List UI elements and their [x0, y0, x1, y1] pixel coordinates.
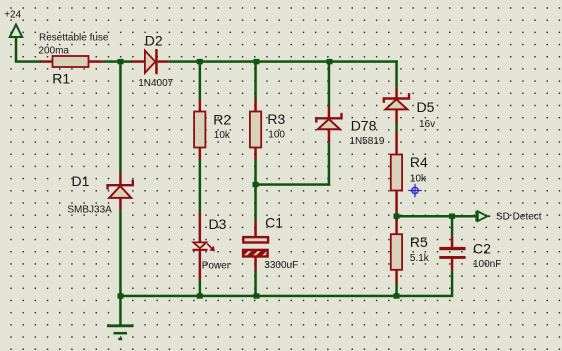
svg-text:C1: C1: [265, 214, 283, 230]
wire C2 to bottom rail: [451, 271, 454, 297]
diode D78 (schottky): [316, 113, 341, 129]
capacitor C2: [439, 247, 465, 259]
svg-text:Power: Power: [202, 260, 231, 271]
wire link R3 junction to D78: [254, 183, 330, 186]
R1 right pin: [89, 60, 104, 63]
resistor R3: [250, 112, 261, 148]
svg-text:R1: R1: [52, 71, 70, 87]
svg-text:10k: 10k: [410, 174, 427, 185]
svg-text:100nF: 100nF: [473, 259, 501, 270]
wire right branch vertical from rail corner: [395, 60, 398, 87]
R2 bottom pin: [199, 148, 202, 160]
svg-text:SD Detect: SD Detect: [496, 211, 542, 222]
svg-text:SMBJ33A: SMBJ33A: [67, 204, 112, 215]
wire D5 to R4: [395, 124, 398, 132]
svg-text:D78: D78: [351, 118, 377, 134]
resistor R5: [391, 234, 402, 270]
wire SD detect horizontal: [395, 215, 475, 218]
led D3: [193, 242, 215, 251]
svg-text:3300uF: 3300uF: [264, 260, 298, 271]
D78 bottom pin: [328, 129, 331, 142]
junction bottom rail at C1: [254, 293, 260, 298]
terminal SD Detect: [477, 211, 491, 222]
wire R3 to C1: [254, 160, 256, 222]
power terminal +24 arrow: [10, 25, 22, 62]
svg-text:R5: R5: [410, 234, 428, 250]
D3 bottom pin: [199, 251, 202, 280]
diode D1 (TVS): [108, 180, 133, 198]
junction bottom rail at D3: [197, 293, 203, 298]
C2 top pin: [451, 236, 454, 248]
D2 right pin: [158, 60, 169, 63]
svg-text:5.1k: 5.1k: [410, 253, 430, 264]
svg-text:D1: D1: [72, 173, 90, 189]
R4 top pin: [395, 131, 398, 155]
R3 top pin: [254, 100, 256, 113]
wire R2 branch top: [199, 62, 202, 101]
junction on rail at D78 branch: [327, 59, 333, 64]
wire main rail segment left (power to R1): [15, 60, 41, 63]
R5 top pin: [395, 219, 398, 234]
wire main rail segment D2 to right corner: [169, 60, 398, 63]
svg-text:1N5819: 1N5819: [349, 136, 384, 147]
resistor R1: [53, 56, 89, 67]
wire D1 to bottom rail: [119, 210, 122, 297]
wire main rail segment R1 to D2: [103, 60, 131, 63]
svg-text:+24: +24: [4, 10, 21, 21]
R5 bottom pin: [395, 270, 398, 284]
svg-text:200ma: 200ma: [38, 46, 69, 57]
diode D5 zener: [384, 93, 409, 109]
wire R3 branch top: [254, 62, 256, 101]
D1 top pin: [119, 173, 122, 185]
junction on rail at R2 branch: [197, 59, 203, 64]
wire junction R4/R5 area: [395, 213, 398, 221]
svg-text:1N4007: 1N4007: [138, 78, 173, 89]
wire D3 to bottom rail: [199, 280, 202, 297]
svg-text:D5: D5: [417, 99, 435, 115]
R2 top pin: [199, 100, 202, 113]
wire D78 branch top: [328, 62, 331, 107]
svg-text:Resettable fuse: Resettable fuse: [39, 32, 109, 43]
wire D1 branch down from rail: [119, 62, 122, 174]
wire R2 to D3: [199, 160, 202, 214]
D5 bottom pin: [395, 109, 398, 123]
C1 top pin: [254, 221, 256, 236]
svg-text:R2: R2: [213, 112, 231, 128]
resistor R4: [391, 155, 402, 191]
ground: [107, 296, 134, 339]
wire C1 to bottom rail: [254, 271, 256, 298]
junction on rail at D1 branch: [118, 59, 124, 64]
junction bottom rail at ground: [118, 293, 124, 298]
wire R1 left pin: [40, 60, 53, 63]
D78 top pin: [328, 107, 331, 118]
svg-text:D2: D2: [145, 32, 163, 48]
wire R5 to bottom rail: [395, 284, 398, 297]
diode D2: [145, 49, 158, 74]
D1 bottom pin: [119, 198, 122, 210]
svg-text:R3: R3: [267, 111, 285, 127]
svg-text:C2: C2: [473, 241, 491, 257]
diode D2 left pin: [131, 60, 145, 63]
D5 top pin: [395, 87, 398, 98]
svg-text:100: 100: [268, 130, 285, 141]
wire bottom rail: [119, 295, 453, 298]
svg-text:R4: R4: [410, 154, 428, 170]
junction on rail at R3 branch: [254, 59, 260, 64]
junction R3 to link wire: [253, 182, 259, 187]
R4 bottom pin: [395, 191, 398, 214]
C1 bottom pin: [254, 256, 256, 270]
junction bottom rail at R5: [394, 293, 400, 298]
wire D78 down to link: [328, 142, 331, 186]
svg-text:D3: D3: [209, 216, 227, 232]
svg-text:10k: 10k: [214, 130, 231, 141]
capacitor C1 electrolytic: [243, 237, 268, 256]
C2 bottom pin: [451, 258, 454, 270]
junction C2 top: [449, 214, 455, 219]
node marker blue: [408, 184, 421, 197]
resistor R2: [194, 112, 205, 148]
D3 top pin: [199, 213, 202, 243]
svg-text:16v: 16v: [419, 119, 435, 130]
R3 bottom pin: [254, 148, 256, 160]
wire C2 branch top: [451, 216, 454, 236]
junction R4 R5 SD: [394, 214, 400, 219]
